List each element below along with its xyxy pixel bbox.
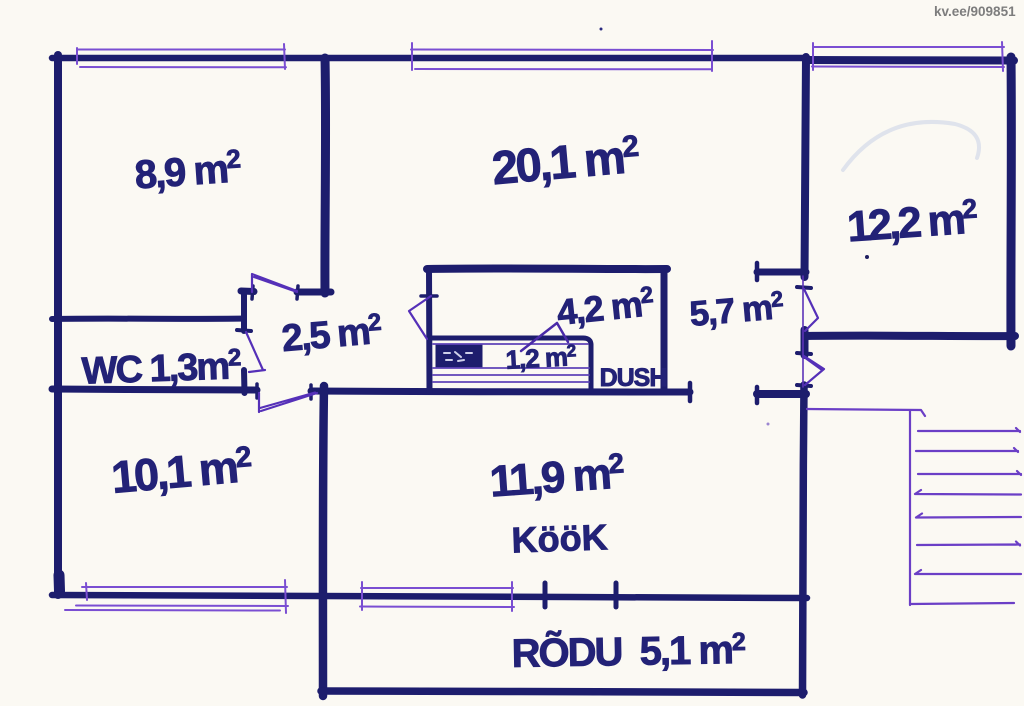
wire bottom wall main bbox=[52, 595, 807, 598]
wire 8,9 bottom / WC top wall bbox=[52, 316, 244, 323]
wire stairs left vertical bbox=[909, 411, 911, 605]
window W4 10,1 room bottom bbox=[82, 586, 287, 588]
speck 2 bbox=[865, 255, 869, 259]
svg-text:12,2 m2: 12,2 m2 bbox=[845, 193, 978, 251]
stair tread 3 bbox=[918, 471, 1021, 475]
wire top wall 12,2 bbox=[806, 56, 1014, 65]
wire tub line 1 bbox=[433, 343, 588, 345]
tub inner lines bbox=[433, 344, 589, 382]
wire left outer wall bbox=[54, 55, 63, 595]
stair tread 6 bbox=[917, 542, 1020, 546]
window W2 20,1 room top bbox=[411, 49, 713, 52]
stair tread 1 bbox=[918, 428, 1020, 432]
boiler box in bathroom bbox=[437, 345, 481, 367]
node jamb x805 b bbox=[797, 353, 811, 354]
wire 12,2 right wall bbox=[1006, 57, 1015, 346]
node jamb x805 c bbox=[797, 385, 811, 386]
wire tub line 3 bbox=[433, 374, 589, 376]
wire WC right wall upper bbox=[241, 294, 247, 331]
wire stairs landing top bbox=[807, 409, 925, 416]
wire stairs bottom bbox=[910, 603, 1014, 604]
wire mid wall stub right bbox=[757, 390, 806, 398]
door to 12,2 bbox=[804, 289, 818, 331]
node jamb x805 a bbox=[797, 287, 811, 288]
svg-text:WC 1,3m2: WC 1,3m2 bbox=[81, 344, 242, 393]
stair tread 7 bbox=[915, 570, 1021, 574]
svg-text:RÕDU 5,1 m2: RÕDU 5,1 m2 bbox=[511, 626, 745, 676]
node jamb y292 right bbox=[297, 286, 298, 299]
wire wall y292 left seg bbox=[241, 288, 254, 296]
door bathroom bbox=[409, 296, 431, 339]
wire wall y292 right seg bbox=[297, 289, 331, 296]
speck 1 bbox=[600, 28, 603, 31]
svg-text:2,5 m2: 2,5 m2 bbox=[280, 309, 384, 361]
speck 3 bbox=[767, 423, 770, 426]
node balcony door tick right bbox=[614, 583, 619, 607]
wire mid wall y390 center bbox=[311, 391, 690, 392]
wire balcony bottom wall bbox=[321, 691, 804, 693]
wire 12,2 bottom wall bbox=[806, 332, 1015, 340]
wire bathroom right wall bbox=[661, 269, 668, 392]
door entry bbox=[804, 356, 824, 385]
door tub caret bbox=[521, 323, 568, 351]
door hall to 8,9 bbox=[252, 274, 297, 292]
node end tick x757 top bbox=[755, 263, 760, 280]
wire bathroom top wall bbox=[427, 264, 667, 273]
door WC bbox=[246, 332, 265, 372]
window W3 12,2 room top bbox=[813, 46, 1004, 48]
window W1 8,9 room top bbox=[78, 49, 285, 51]
smudge in 12,2 room bbox=[843, 122, 979, 170]
node jamb y292 left bbox=[252, 286, 253, 299]
svg-text:DUSH: DUSH bbox=[600, 364, 667, 392]
window W5 kitchen bottom bbox=[361, 587, 513, 589]
node balcony door tick left bbox=[543, 583, 548, 607]
stair tread 5 bbox=[916, 514, 1021, 518]
svg-text:5,7 m2: 5,7 m2 bbox=[688, 286, 785, 334]
wire right wall upper bbox=[805, 57, 807, 277]
node jamb y390 right bbox=[309, 385, 313, 399]
node WC door jamb bbox=[237, 330, 251, 331]
svg-text:1,2 m2: 1,2 m2 bbox=[505, 341, 577, 375]
wire WC right wall lower bbox=[241, 370, 248, 393]
node jamb y390 left bbox=[255, 384, 259, 398]
wire divider 10,1|11,9 + balcony left wall bbox=[323, 386, 324, 696]
wire tub top bbox=[431, 338, 591, 345]
node end tick x690 bbox=[688, 383, 693, 401]
door hall to 10,1 bbox=[259, 393, 317, 413]
wire right wall lower bbox=[803, 385, 805, 695]
svg-text:KööK: KööK bbox=[511, 516, 608, 560]
wire bathroom left wall bbox=[426, 269, 433, 392]
wire right wall mid bbox=[801, 330, 809, 355]
wire corner jog x244 bbox=[241, 292, 247, 319]
svg-text:11,9 m2: 11,9 m2 bbox=[488, 447, 626, 506]
wire tub line 4 bbox=[433, 381, 589, 383]
wire tub line 2 bbox=[433, 367, 589, 369]
wire 20,1 stub wall bbox=[757, 269, 806, 276]
wire divider 8,9|20,1 bbox=[320, 58, 330, 293]
wire top wall bbox=[52, 54, 806, 61]
stair tread 4 bbox=[915, 490, 1021, 495]
wire thin wall line across right-wall door gaps bbox=[802, 276, 804, 387]
wire mid wall y390 left bbox=[52, 389, 257, 390]
stair tread 2 bbox=[916, 448, 1018, 452]
node jamb bathroom door bbox=[421, 294, 437, 298]
wire left wall bottom flare bbox=[54, 575, 66, 591]
node end tick x757 bottom bbox=[755, 387, 760, 403]
svg-text:kv.ee/909851: kv.ee/909851 bbox=[934, 4, 1016, 19]
wire tub right bbox=[589, 345, 594, 391]
